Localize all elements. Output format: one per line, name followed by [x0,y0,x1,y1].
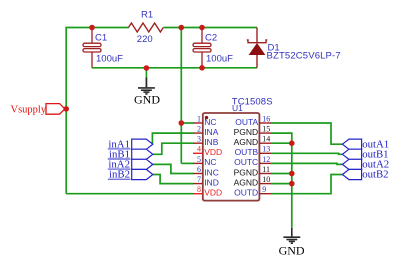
wire top rail left segment [66,28,129,194]
resistor R1 [129,23,164,32]
svg-text:OUTA: OUTA [235,117,258,127]
svg-text:220: 220 [137,34,153,45]
pin 9 OUTD [259,193,271,195]
svg-text:16: 16 [262,114,270,123]
wire pin16 to outA1 [271,123,343,144]
svg-text:10: 10 [262,175,270,184]
pin 3 INB [193,142,203,144]
svg-text:14: 14 [262,135,270,144]
pin 4 VDD [193,152,203,154]
wire inA2 to pin6 [153,164,194,173]
svg-text:PGND: PGND [234,167,259,177]
svg-text:4: 4 [197,145,201,154]
svg-text:6: 6 [197,165,201,174]
port outB2 [342,169,361,179]
pin 16 OUTA [259,122,271,124]
wire pin5 [181,162,193,164]
svg-text:8: 8 [197,185,201,194]
wire pin13 to outB1 [271,153,343,154]
wire top rail right segment [164,27,258,29]
wire pin14 [271,142,292,144]
pin1 marker dot [205,116,208,119]
IC U1 body TC1508S [203,113,260,201]
svg-text:C2: C2 [205,33,217,44]
svg-text:9: 9 [262,185,266,194]
junction C2 bottom [199,65,205,71]
capacitor C2 [193,28,211,68]
svg-text:VDD: VDD [204,147,222,157]
pin 11 PGND [259,173,271,175]
svg-text:OUTB: OUTB [235,147,259,157]
svg-text:15: 15 [262,125,270,134]
port Vsupply [46,104,65,115]
wire bottom gnd rail [92,67,257,69]
port outA1 [342,139,361,149]
capacitor C1 [83,28,101,68]
wire inA1 to pin2 [152,133,193,144]
pin 2 INA [193,132,203,134]
pin 10 AGND [259,183,271,185]
junction C2 top [199,25,205,31]
svg-text:2: 2 [197,125,201,134]
svg-text:AGND: AGND [234,137,259,147]
wire pin10 [271,183,292,185]
wire inB1 to pin3 [153,143,194,154]
pin 15 PGND [259,132,271,134]
port inA1 [132,139,153,149]
svg-text:OUTC: OUTC [234,157,258,167]
svg-text:INA: INA [204,127,219,137]
svg-text:13: 13 [262,145,270,154]
pin 1 NC [193,122,203,124]
junction C1 top [89,25,95,31]
wire pin9 to outB2 [271,175,343,194]
port inB2 [132,169,153,179]
junction GND1 [144,65,150,71]
svg-text:1: 1 [197,114,201,123]
svg-text:PGND: PGND [234,127,259,137]
svg-text:NC: NC [204,117,216,127]
svg-text:5: 5 [197,155,201,164]
junction rail/pin1 feed [179,25,185,31]
wire pin1 [181,122,193,124]
svg-text:INB: INB [204,137,219,147]
ground GND1 [138,68,155,94]
svg-text:7: 7 [197,175,201,184]
pin 6 INC [193,173,203,175]
wire pin15 gnd vertical [271,133,292,228]
pin 5 NC [193,162,203,164]
junction pin1 [179,120,185,126]
svg-text:AGND: AGND [234,177,259,187]
junction pin10 gnd [289,181,295,187]
ground GND2 [283,228,300,243]
svg-text:11: 11 [262,165,270,174]
svg-text:3: 3 [197,135,201,144]
diode D1 zener [247,28,267,68]
svg-text:OUTD: OUTD [234,188,258,198]
svg-text:outB2: outB2 [362,169,388,181]
svg-text:INC: INC [204,167,219,177]
wire pin12 to outA2 [271,163,343,164]
port inA2 [132,159,153,169]
svg-text:VDD: VDD [204,188,222,198]
pin 8 VDD [193,193,203,195]
svg-text:100uF: 100uF [206,54,233,65]
port outB1 [342,149,361,159]
pin 7 IND [193,183,203,185]
pin 13 OUTB [259,152,271,154]
svg-text:Vsupply: Vsupply [11,105,47,116]
svg-text:GND: GND [279,244,305,258]
svg-text:U1: U1 [232,103,243,113]
junction pin14 gnd [289,140,295,146]
wire inB2 to pin7 [153,175,194,184]
port inB1 [132,149,153,159]
svg-text:NC: NC [204,157,216,167]
svg-text:100uF: 100uF [96,54,123,65]
junction pin11 gnd [289,171,295,177]
junction Vsupply [63,106,69,112]
pin 12 OUTC [259,162,271,164]
svg-text:GND: GND [134,92,160,106]
svg-text:12: 12 [262,155,270,164]
port outA2 [342,159,361,169]
svg-text:BZT52C5V6LP-7: BZT52C5V6LP-7 [267,51,341,62]
wire pin11 [271,173,292,175]
pin 14 AGND [259,142,271,144]
wire pin8 VDD from left rail [66,193,193,195]
wire vertical to pin1/pin5 [180,28,182,164]
svg-text:R1: R1 [141,10,153,21]
svg-text:IND: IND [204,177,219,187]
svg-text:C1: C1 [95,33,107,44]
